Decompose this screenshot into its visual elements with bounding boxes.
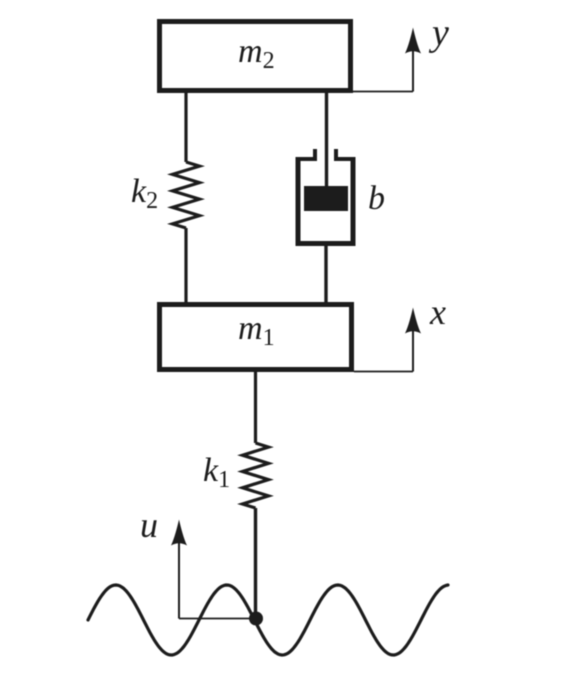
damper piston	[304, 186, 348, 211]
wire m1 to spring k1	[254, 372, 257, 443]
road surface wave	[88, 585, 448, 655]
svg-text:u: u	[140, 505, 158, 545]
spring k1	[243, 443, 269, 508]
wire u axis to node	[179, 618, 256, 620]
svg-text:b: b	[368, 180, 385, 217]
axis arrow u	[171, 520, 187, 619]
svg-text:y: y	[428, 12, 449, 54]
wire m2 to y-axis	[353, 91, 413, 93]
damper top cap right	[336, 149, 356, 159]
mass m2 box	[160, 22, 351, 91]
axis arrow x	[405, 308, 421, 372]
wire spring k1 to node	[254, 508, 257, 618]
axis arrow y	[405, 28, 421, 92]
wire m2 to damper rod	[325, 91, 328, 188]
spring k2	[173, 162, 200, 228]
svg-text:x: x	[429, 292, 446, 332]
damper top cap left	[296, 149, 316, 159]
wire m2 to spring k2	[184, 91, 187, 162]
node junction dot	[249, 612, 263, 626]
wire spring k2 to m1	[184, 228, 187, 304]
mass m1 box	[160, 305, 352, 370]
wire damper to m1	[324, 246, 327, 304]
damper b cylinder	[298, 159, 353, 244]
wire m1 to x-axis	[354, 371, 413, 373]
